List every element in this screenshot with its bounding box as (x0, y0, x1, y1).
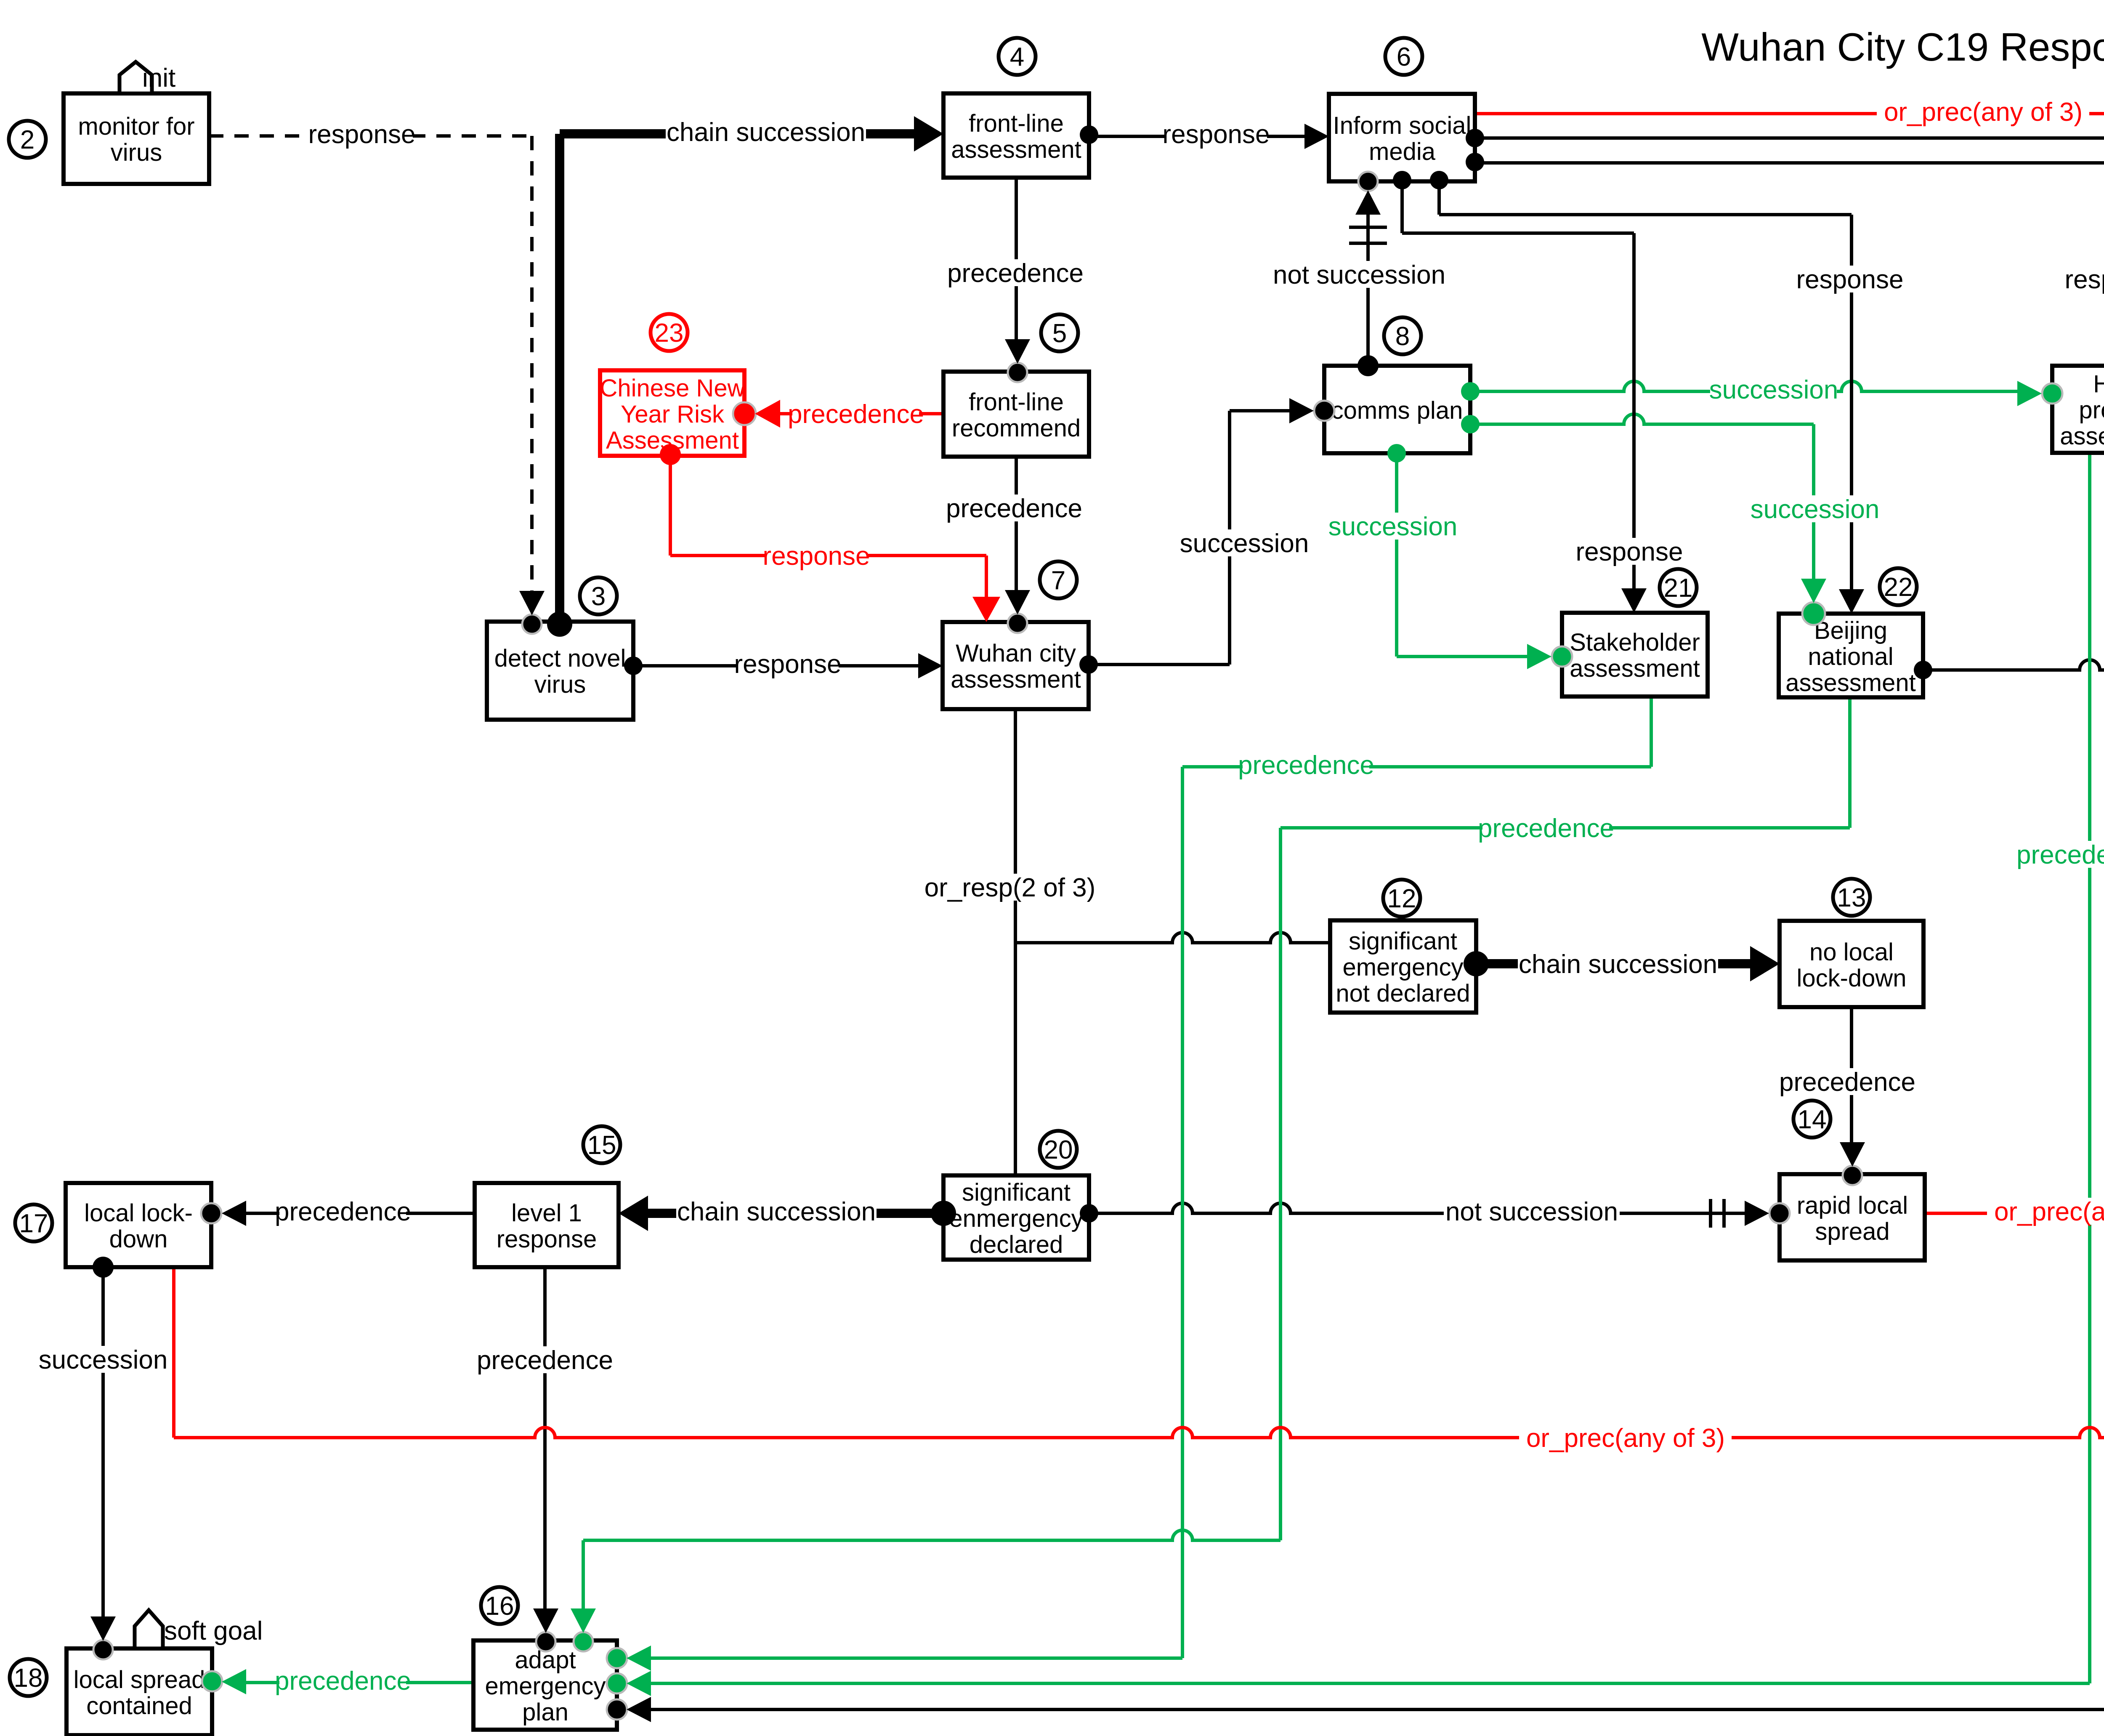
svg-text:local lock-: local lock- (84, 1199, 193, 1227)
svg-text:23: 23 (655, 319, 684, 348)
svg-text:succession: succession (1751, 495, 1880, 524)
svg-text:emergency: emergency (1343, 954, 1464, 981)
svg-text:precedence: precedence (1478, 814, 1614, 843)
svg-text:local spread: local spread (74, 1666, 205, 1693)
svg-text:Year Risk: Year Risk (621, 401, 725, 428)
svg-text:precedence: precedence (788, 400, 924, 429)
svg-text:front-line: front-line (969, 388, 1064, 416)
svg-text:precedence: precedence (1779, 1068, 1915, 1097)
svg-text:significant: significant (962, 1179, 1071, 1206)
svg-text:chain succession: chain succession (1519, 950, 1717, 979)
svg-text:emergency: emergency (485, 1672, 606, 1700)
svg-text:no local: no local (1809, 938, 1894, 966)
svg-text:media: media (1369, 138, 1436, 165)
svg-text:13: 13 (1837, 883, 1866, 912)
svg-text:Chinese New: Chinese New (600, 375, 746, 402)
svg-text:national: national (1808, 643, 1893, 670)
svg-text:15: 15 (587, 1131, 616, 1160)
svg-text:rapid local: rapid local (1797, 1192, 1908, 1219)
svg-text:chain succession: chain succession (667, 118, 865, 147)
svg-text:22: 22 (1884, 573, 1913, 602)
svg-text:14: 14 (1798, 1105, 1827, 1134)
svg-text:comms plan: comms plan (1331, 397, 1463, 424)
svg-text:response: response (497, 1226, 597, 1253)
svg-text:soft goal: soft goal (164, 1616, 263, 1646)
svg-text:not declared: not declared (1336, 980, 1470, 1007)
svg-text:Wuhan city: Wuhan city (956, 640, 1076, 667)
svg-text:response: response (2064, 265, 2104, 294)
svg-text:init: init (142, 64, 175, 93)
svg-text:3: 3 (591, 582, 606, 611)
svg-text:assessment: assessment (1570, 655, 1700, 682)
svg-text:declared: declared (970, 1231, 1063, 1258)
svg-text:down: down (109, 1226, 168, 1253)
svg-text:precedence: precedence (946, 494, 1082, 523)
svg-text:or_prec(any of 3): or_prec(any of 3) (1884, 98, 2083, 127)
svg-text:4: 4 (1010, 43, 1024, 72)
svg-text:Stakeholder: Stakeholder (1570, 629, 1700, 656)
svg-text:assessment: assessment (1785, 669, 1915, 697)
svg-text:response: response (308, 120, 415, 149)
svg-text:assessment: assessment (2060, 423, 2104, 450)
svg-text:7: 7 (1051, 566, 1065, 595)
svg-text:6: 6 (1397, 43, 1411, 72)
svg-text:17: 17 (19, 1209, 48, 1238)
svg-text:12: 12 (1387, 884, 1416, 913)
svg-text:response: response (734, 650, 841, 679)
svg-text:succession: succession (1180, 529, 1309, 558)
svg-text:precedence: precedence (275, 1197, 411, 1226)
svg-text:succession: succession (39, 1345, 168, 1374)
svg-text:succession: succession (1709, 375, 1838, 404)
svg-text:5: 5 (1052, 319, 1067, 348)
svg-text:monitor for: monitor for (78, 113, 194, 140)
svg-text:response: response (1796, 265, 1903, 294)
svg-text:response: response (1162, 120, 1270, 149)
svg-text:Hubei: Hubei (2093, 370, 2104, 398)
svg-text:precedence: precedence (275, 1667, 411, 1696)
svg-text:response: response (1575, 537, 1683, 566)
svg-text:recommend: recommend (952, 415, 1081, 442)
svg-text:8: 8 (1395, 322, 1410, 351)
svg-text:16: 16 (485, 1592, 514, 1621)
svg-text:level 1: level 1 (511, 1199, 582, 1227)
svg-text:virus: virus (111, 139, 162, 166)
svg-text:lock-down: lock-down (1796, 965, 1906, 992)
svg-text:Wuhan City C19 Response “as-is: Wuhan City C19 Response “as-is” v5v.R1c(… (1701, 25, 2104, 69)
svg-text:not succession: not succession (1273, 261, 1445, 290)
svg-text:province: province (2079, 396, 2104, 424)
svg-text:assessment: assessment (951, 666, 1081, 693)
svg-text:chain succession: chain succession (677, 1197, 876, 1226)
svg-text:precedence: precedence (477, 1346, 613, 1375)
svg-text:plan: plan (522, 1699, 569, 1726)
svg-text:20: 20 (1044, 1135, 1073, 1164)
svg-text:18: 18 (14, 1664, 43, 1693)
svg-text:virus: virus (534, 671, 586, 698)
svg-text:response: response (762, 542, 870, 571)
svg-text:precedence: precedence (947, 259, 1084, 288)
svg-text:not succession: not succession (1445, 1197, 1618, 1226)
svg-text:detect novel: detect novel (494, 645, 626, 672)
svg-text:succession: succession (1328, 512, 1458, 541)
svg-text:2: 2 (20, 125, 35, 154)
svg-text:spread: spread (1815, 1218, 1889, 1245)
svg-text:assessment: assessment (951, 136, 1081, 163)
svg-text:or_resp(2 of 3): or_resp(2 of 3) (924, 873, 1096, 902)
svg-text:enmergency: enmergency (949, 1205, 1083, 1232)
svg-text:precedence: precedence (2016, 840, 2104, 869)
svg-text:or_prec(any of 3): or_prec(any of 3) (1526, 1424, 1725, 1453)
svg-text:front-line: front-line (969, 110, 1064, 137)
svg-text:21: 21 (1664, 574, 1693, 603)
svg-text:Beijing: Beijing (1814, 617, 1887, 644)
svg-text:Inform social: Inform social (1333, 112, 1472, 139)
svg-text:significant: significant (1349, 928, 1457, 955)
svg-text:contained: contained (86, 1692, 192, 1720)
svg-text:precedence: precedence (1238, 751, 1374, 780)
svg-text:or_prec(any of 3): or_prec(any of 3) (1994, 1197, 2104, 1226)
